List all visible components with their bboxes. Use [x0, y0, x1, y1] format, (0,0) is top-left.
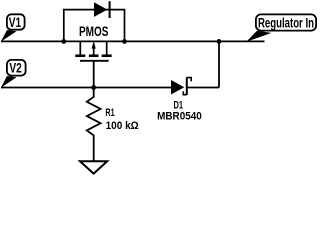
svg-text:PMOS: PMOS — [79, 24, 109, 39]
node V2 — [1, 60, 26, 88]
resistor R1 — [87, 88, 101, 162]
svg-text:R1: R1 — [105, 107, 114, 119]
body diode of PMOS (bridge) — [64, 1, 125, 41]
wire bottom rail V2 to D1 anode — [1, 87, 171, 89]
svg-text:V1: V1 — [9, 15, 22, 30]
svg-text:Regulator In: Regulator In — [258, 15, 314, 30]
node Regulator In — [246, 14, 316, 41]
junction dot top rail left — [61, 39, 66, 44]
node V1 — [1, 14, 25, 42]
diode D1 — [171, 77, 191, 95]
junction dot top rail at D1 branch — [217, 39, 222, 44]
wire top rail V1 to Regulator In — [1, 40, 265, 42]
wire PMOS gate to V2 rail — [93, 61, 95, 88]
svg-text:MBR0540: MBR0540 — [157, 110, 202, 122]
junction dot gate node on V2 rail — [91, 85, 96, 90]
transistor PMOS — [75, 41, 111, 61]
ground — [80, 161, 107, 173]
svg-text:100 kΩ: 100 kΩ — [106, 120, 139, 132]
wire D1 cathode to corner — [188, 87, 219, 89]
svg-text:V2: V2 — [9, 61, 21, 76]
wire vertical branch to top rail — [218, 41, 220, 87]
junction dot top rail right — [122, 39, 127, 44]
